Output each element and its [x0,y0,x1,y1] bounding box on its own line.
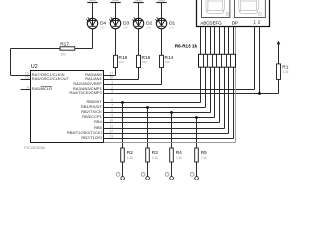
pin 11 RB5 stub [94,125,113,131]
resistor R15 [137,55,151,67]
wire display segment pin 0 to resistor bank [200,26,202,54]
svg-text:6: 6 [111,99,113,103]
pin 10 RB4 stub [94,119,113,125]
svg-text:ABCDEFG: ABCDEFG [200,21,222,26]
button terminal R4 [170,177,174,181]
button terminal R2 [121,177,125,181]
pin 4 RA5/MCLR stub [21,86,53,92]
pin 1 RA2/AN2/VREF stub [73,81,113,87]
wire RB5 row to segment column [114,128,225,130]
op U2 PIC16F628A body [24,64,103,150]
LED D4 [86,17,106,29]
display digit 2 box [235,0,266,18]
power rail bar for LED D3 [110,0,120,3]
wire R5 to button [196,162,198,177]
svg-text:1.5k: 1.5k [152,156,158,160]
wire button column R4 [171,113,173,149]
svg-text:RB7/T1OSI: RB7/T1OSI [81,135,101,140]
svg-text:1.5k: 1.5k [176,156,182,160]
svg-text:LED: LED [123,28,128,30]
button actuator circle R2 [116,173,120,177]
wire RB3 row to segment column [114,117,215,119]
node junction RB3 button column [195,116,198,119]
svg-text:R17: R17 [60,42,69,48]
LED D2 [132,17,152,29]
node junction RB1 button column [146,106,149,109]
wire R3 to button [147,162,149,177]
pin 8 RB2/TX/CK stub [81,109,113,115]
svg-text:D1: D1 [169,20,175,26]
svg-text:10: 10 [109,119,113,123]
svg-text:15: 15 [25,76,29,80]
wire VCC to R1 [278,44,280,64]
wire RA3 row to display digit 1 [114,89,255,91]
svg-text:DP: DP [232,21,238,26]
svg-text:LED: LED [146,28,151,30]
svg-text:3: 3 [111,90,113,94]
wire button column R3 [147,108,149,149]
wire LED D4 cathode down to R17 row [92,29,94,49]
wire power bar to LED D1 anode [161,3,163,19]
svg-text:1.5k: 1.5k [201,156,207,160]
svg-text:7: 7 [111,104,113,108]
svg-text:11: 11 [110,125,114,129]
resistor R14 [160,55,174,67]
button actuator circle R3 [141,173,145,177]
wire display common gray to under U2 [235,26,237,142]
svg-text:D3: D3 [123,20,129,26]
wire display segment pin 6 to resistor bank [228,26,230,54]
wire R1 bottom to RA4 row [278,79,280,93]
display digit 1 box [202,0,230,18]
pin 15 RA6/OSC2/CLKOUT stub [21,76,70,82]
wire power bar to LED D4 anode [92,3,94,19]
wire display segment pin 2 to resistor bank [210,26,212,54]
resistor R2 [121,148,134,162]
wire display segment pin 1 to resistor bank [205,26,207,54]
wire R15 bottom to U2 pin row [138,68,140,80]
wire RB6 row to segment column [114,133,229,135]
LED D3 [109,17,129,29]
button terminal R5 [195,177,199,181]
pin 12 RB6/T1OSO/T1CKI stub [67,130,114,136]
power rail bar for LED D2 [133,0,143,3]
resistor R5 [195,148,208,162]
wire RB1 row to segment column [114,107,206,109]
wire power bar to LED D3 anode [115,3,117,19]
svg-text:12: 12 [109,130,113,134]
resistor R1 [277,64,289,80]
svg-text:RB4: RB4 [94,119,103,124]
power rail bar for LED D4 [87,0,97,3]
svg-text:18: 18 [109,76,113,80]
wire RA4 row to R1 and display digit 2 [114,93,279,95]
svg-text:330: 330 [165,60,170,64]
LED D1 [155,17,175,29]
wire LED D2 cathode down to R15 [138,29,140,56]
wire RB0 row to segment column [114,102,201,104]
svg-text:1: 1 [111,81,113,85]
node junction RB0 button column [121,101,124,104]
wire RB7 row to segment column [114,138,234,140]
wire display segment pin 5 to resistor bank [224,26,226,54]
pin 17 RA0/AN0 stub [85,72,113,78]
svg-text:D4: D4 [100,20,106,26]
pin 3 RA4/T0CKI/CMP2 stub [69,90,113,96]
wire LED D1 cathode down to R14 [161,29,163,56]
button actuator circle R4 [165,173,169,177]
wire R17 right end to D4 column [75,48,93,50]
pin 16 RA7/OSC1/CLKIN stub [21,72,65,78]
wire R16 bottom to U2 pin row [115,68,117,76]
display pin labels ABCDEFG DP 1 2 [200,20,261,26]
svg-text:1.5k: 1.5k [127,156,133,160]
wire button column R5 [196,118,198,149]
wire power bar to LED D2 anode [138,3,140,19]
svg-text:LED: LED [100,28,105,30]
pin 18 RA1/AN1 stub [85,76,113,82]
wire R4 to button [171,162,173,177]
button terminal R3 [146,177,150,181]
svg-text:9: 9 [111,114,113,118]
wire RB2 row to segment column [114,112,211,114]
svg-text:4: 4 [27,86,29,90]
resistor R4 [170,148,183,162]
svg-text:LED: LED [169,28,174,30]
svg-text:390: 390 [60,53,66,57]
svg-text:PIC16F628A: PIC16F628A [24,146,45,150]
svg-text:RA4/T0CKI/CMP2: RA4/T0CKI/CMP2 [69,90,102,95]
svg-text:13: 13 [109,135,113,139]
power rail bar for LED D1 [156,0,166,3]
svg-text:RA5/MCLR: RA5/MCLR [32,86,52,91]
svg-text:RA6/OSC2/CLKOUT: RA6/OSC2/CLKOUT [32,76,70,81]
wire display segment pin 4 to resistor bank [219,26,221,54]
resistor R17 [60,42,75,57]
wire R2 to button [122,162,124,177]
svg-text:330: 330 [119,60,124,64]
resistor R3 [146,148,159,162]
svg-text:8: 8 [111,109,113,113]
svg-text:330: 330 [142,60,147,64]
svg-text:U2: U2 [31,64,38,70]
resistor bank R6-R13 [199,54,236,67]
wire button column R2 [122,103,124,149]
svg-text:R6-R13 1k: R6-R13 1k [175,43,198,48]
wire RB4 row to segment column [114,122,220,124]
wire RA0 row to R16 [114,75,116,77]
svg-text:1.5k: 1.5k [283,70,289,74]
node junction RB2 button column [170,111,173,114]
button actuator circle R5 [190,173,194,177]
resistor R16 [114,55,128,67]
pin 7 RB1/RX/DT stub [81,104,114,110]
wire RA1 row to R15 [114,79,139,81]
wire RA2 row to R14 [114,84,162,86]
pin 13 RB7/T1OSI stub [81,135,113,141]
wire display segment pin 7 to resistor bank [233,26,235,54]
wire R14 bottom to U2 pin row [161,68,163,85]
power VCC arrow for R1 [277,41,281,45]
wire display segment pin 3 to resistor bank [214,26,216,54]
display DS1 outer box [197,0,270,27]
wire R17 left end to pin 16 of U2 [11,48,61,50]
svg-text:D2: D2 [146,20,152,26]
wire LED D3 cathode down to R16 [115,29,117,56]
MCLR overline [41,85,52,87]
node junction RA4 digit2 [258,92,261,95]
pin 6 RB0/INT stub [86,99,113,105]
pin 9 RB3/CCP1 stub [82,114,113,120]
pin 2 RA3/AN3/CMP1 stub [73,86,114,92]
